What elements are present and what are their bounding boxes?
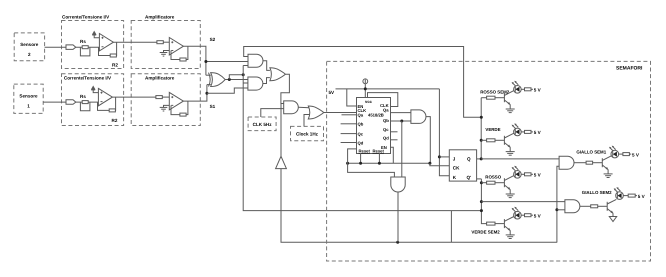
node J tie: [438, 155, 441, 158]
wire to JK CK pin: [430, 163, 449, 166]
current-source tag symbol (canale 1): [66, 100, 76, 105]
svg-text:GIALLO SEM2: GIALLO SEM2: [582, 190, 612, 195]
dashed box Clock 1Hz: [291, 126, 324, 140]
svg-text:Q: Q: [467, 156, 471, 161]
ground at U2 inverting input: [164, 51, 170, 53]
pin stub Qc right: [391, 131, 398, 133]
wire + 5V label row3: [531, 173, 533, 175]
wire buffer input down to bottom rail: [281, 169, 557, 243]
wire + 5V label row1: [531, 88, 533, 90]
supply resistor row1: [525, 88, 532, 91]
node on Q' vertical: [242, 73, 245, 76]
transistor Q row1: [503, 93, 505, 102]
LED D giallo1: [611, 150, 619, 158]
wire OR1 output down to AND3: [281, 74, 290, 103]
wire Q rail to GIALLO SEM1 AND: [481, 158, 559, 160]
dashed box Convertitore I/V (canale 1): [62, 74, 124, 126]
svg-text:5 V: 5 V: [632, 152, 640, 157]
svg-text:Rs: Rs: [80, 94, 86, 99]
base resistor row4: [487, 222, 495, 225]
wire EN-left tie to 5V: [347, 89, 357, 106]
pin stub Qd left: [341, 142, 357, 144]
wire S1: U4 output to logic: [183, 85, 207, 102]
wire to transistor base row1: [495, 97, 504, 99]
node JK clock junction: [428, 162, 431, 165]
node vcc junction: [364, 87, 367, 90]
op-amp U1 input marks: [102, 37, 104, 47]
svg-text:Reset: Reset: [359, 149, 371, 154]
sensor block Sensore 1: [14, 84, 43, 113]
wire XOR up-branch to Q' vertical: [229, 75, 243, 80]
wire + 5V label row2: [531, 131, 533, 133]
wire stub to GIALLO SEM2 AND input2: [557, 209, 565, 211]
wire Q' bus down to row4 resistor: [481, 179, 486, 224]
svg-text:Amplificatore: Amplificatore: [145, 76, 175, 81]
node XOR output junction: [228, 78, 231, 81]
and gate A1: [248, 54, 263, 67]
svg-text:J: J: [453, 156, 456, 161]
pin stub Qa left: [342, 114, 357, 116]
svg-text:Qb: Qb: [383, 118, 389, 123]
wire bus to base resistor row2: [481, 139, 486, 141]
wire U3 out to amplifier: [112, 96, 156, 98]
feedback loop with resistor (U4 canale 1): [171, 101, 188, 115]
LED D giallo2: [616, 192, 624, 200]
wire sensor1 to converter: [43, 101, 66, 103]
svg-text:R2: R2: [112, 118, 118, 123]
supply resistor giallo2: [628, 194, 635, 197]
transistor Q row4: [503, 219, 505, 228]
svg-text:2: 2: [28, 52, 31, 57]
wire bus to base resistor row3: [481, 182, 486, 184]
pin stub Reset1: [360, 154, 362, 164]
supply bubble above vcc: [363, 79, 368, 84]
supply resistor row2: [525, 130, 532, 133]
wire GIALLO shared vertical: [557, 166, 559, 242]
wire Q pin to bus: [477, 158, 482, 160]
wire EN2 pin via left: [348, 149, 395, 177]
ground giallo1: [604, 173, 613, 175]
svg-text:5 V: 5 V: [534, 130, 542, 135]
ground row2: [506, 151, 515, 153]
supply resistor giallo1: [623, 153, 630, 156]
wire bus to base resistor R row1: [481, 97, 486, 99]
pin stub Reset2: [378, 154, 380, 164]
svg-text:4518/2B: 4518/2B: [368, 113, 384, 118]
supply resistor row4: [525, 214, 532, 217]
wire XOR input stubs: [206, 74, 211, 76]
svg-text:5V: 5V: [329, 90, 336, 95]
wire AND7 output to resistor: [580, 205, 591, 207]
wire stub to J pin: [439, 156, 449, 158]
and gate A7 (GIALLO SEM2): [565, 200, 580, 213]
svg-text:S1: S1: [210, 104, 216, 109]
shunt loop Rs (canale 2): [80, 47, 90, 56]
wire buffer output up to AND3 input node: [280, 104, 282, 157]
svg-text:Amplificatore: Amplificatore: [145, 15, 175, 20]
buffer B1 (points up): [276, 156, 287, 168]
ground arrow giallo2: [609, 217, 616, 222]
flip-flop JK U5: [449, 150, 476, 181]
svg-text:CK: CK: [453, 166, 460, 171]
wire AND6 output to resistor: [574, 162, 586, 164]
wire AND3 output to OR2: [298, 106, 309, 109]
feedback loop with resistor R2 (canale 1): [98, 97, 116, 110]
op-amp U3 input marks: [101, 92, 103, 102]
node S1 junction: [205, 92, 208, 95]
wire stub Q' vertical to AND2 input2: [243, 82, 248, 84]
svg-text:Sensore: Sensore: [20, 42, 39, 47]
wire 5V rail: [336, 88, 440, 90]
feedback loop with resistor (U2 canale 2): [171, 46, 188, 59]
shunt loop Rs (canale 1): [80, 102, 90, 111]
svg-text:Sensore: Sensore: [19, 93, 38, 98]
pin stub Qb left: [341, 123, 357, 125]
wire S2 branch to AND1: [206, 61, 248, 63]
svg-text:R2: R2: [112, 63, 118, 68]
wire stub Q' vertical to AND1 input3: [243, 65, 248, 67]
and gate A4: [411, 110, 426, 124]
ground row4: [506, 234, 515, 236]
wire AND5 output to bottom rail: [397, 192, 399, 242]
svg-text:Qa: Qa: [358, 113, 364, 118]
svg-text:Q': Q': [467, 175, 472, 180]
svg-text:Qd: Qd: [358, 140, 364, 145]
ground row3: [506, 193, 515, 195]
supply resistor row3: [525, 173, 532, 176]
node Q' giallo2 tap: [480, 200, 483, 203]
wire 5V to J and K of JK: [439, 89, 449, 176]
wire U1 out to amplifier: [113, 41, 157, 43]
svg-text:Qa: Qa: [383, 107, 389, 112]
wire stub to AND3 input1: [281, 103, 284, 105]
wire to transistor giallo1: [593, 162, 603, 164]
wire + 5V label giallo2: [635, 195, 637, 197]
wire EN-right to reset rail: [391, 147, 394, 163]
and gate A2: [248, 77, 263, 90]
wire CLK5Hz output to AND3: [261, 109, 284, 117]
wire sensor2 to converter: [45, 46, 66, 48]
svg-text:Rs: Rs: [80, 39, 86, 44]
series resistor giallo2: [591, 205, 598, 208]
transistor Q row2: [503, 136, 505, 145]
wire to transistor base row2: [495, 139, 504, 141]
op-amp U1 (I/V converter, canale 2): [99, 34, 113, 51]
current-source tag symbol (canale 2): [66, 45, 76, 50]
wire right Qa to AND4 input1: [391, 112, 411, 114]
resistor Rs (canale 2): [82, 46, 88, 49]
node bottom rail and-down output: [396, 241, 399, 244]
svg-text:Qc: Qc: [358, 131, 364, 136]
wire resistor to op-amp U2: [163, 41, 169, 43]
wire right Qb to AND4 input2: [391, 120, 411, 122]
node S2 junction: [204, 60, 207, 63]
transistor Q giallo1: [601, 158, 603, 167]
wire tag to opamp: [76, 101, 99, 103]
wire right CLK loop to vcc: [368, 93, 398, 107]
transistor Q row3: [503, 178, 505, 187]
svg-text:5 V: 5 V: [534, 213, 542, 218]
and gate A6 (GIALLO SEM1): [559, 156, 574, 169]
svg-text:ROSSO: ROSSO: [485, 175, 501, 180]
wire LED to supply resistor row2: [521, 131, 524, 133]
node giallo vertical tap: [555, 208, 558, 211]
pin stub Qc left: [341, 133, 357, 135]
node reset rail left: [346, 162, 349, 165]
wire resistor to op-amp U4: [162, 96, 169, 98]
wire to transistor base row3: [495, 182, 504, 184]
wire LED to supply resistor row3: [521, 173, 524, 175]
svg-text:Qd: Qd: [383, 136, 389, 141]
svg-text:Corrente/Tensione I/V: Corrente/Tensione I/V: [62, 15, 110, 20]
+V arrow at op-amp U3: [93, 90, 98, 93]
op-amp U4 input marks: [171, 96, 173, 105]
svg-text:Reset: Reset: [373, 149, 385, 154]
dashed box SEMAFORI: [327, 61, 651, 261]
base resistor row3: [487, 181, 495, 184]
wire to transistor base row4: [495, 223, 504, 225]
wire Q' vertical (feedback from Q' rail): [243, 66, 481, 211]
base resistor row2: [487, 139, 495, 142]
dashed box CLK 5Hz: [248, 117, 276, 131]
wire OR2 output to counter CLK: [324, 112, 357, 114]
LED D row1: [514, 86, 522, 94]
svg-text:5 V: 5 V: [534, 88, 542, 93]
svg-text:Qb: Qb: [358, 122, 364, 127]
svg-text:Qc: Qc: [383, 127, 389, 132]
LED D row4: [514, 211, 522, 219]
transistor Q giallo2: [606, 202, 608, 211]
dashed box Convertitore I/V (canale 2): [62, 21, 124, 69]
node Qb branch: [400, 120, 403, 123]
feedback resistor (U2 canale 2): [180, 58, 186, 61]
svg-text:5 V: 5 V: [534, 173, 542, 178]
op-amp U2 (amplifier, canale 2): [169, 38, 183, 56]
and gate A3: [284, 101, 299, 114]
wire Q' line to GIALLO SEM2 AND input1: [481, 201, 565, 203]
node Q' rail tap: [480, 209, 483, 212]
ground row1: [506, 108, 515, 110]
wire + 5V label row4: [531, 214, 533, 216]
LED D row3: [514, 171, 522, 179]
node reset2: [378, 162, 381, 165]
svg-text:CLK 5Hz: CLK 5Hz: [253, 122, 273, 127]
or gate O2: [308, 106, 324, 119]
op-amp U2 input marks: [171, 41, 173, 50]
feedback resistor (U4 canale 1): [180, 113, 186, 116]
svg-text:Corrente/Tensione I/V: Corrente/Tensione I/V: [64, 76, 112, 81]
svg-text:VERDE: VERDE: [485, 127, 500, 132]
wire LED to supply resistor giallo1: [619, 153, 623, 155]
node reset1: [359, 162, 362, 165]
wire + 5V label giallo1: [629, 153, 631, 155]
wire top feedback rail from Q bus to AND1 input1: [244, 47, 482, 118]
wire Q bus: [480, 98, 482, 159]
pin stub Qd right: [391, 139, 398, 141]
wire rail1-to-rail2 connector: [450, 211, 452, 243]
and gate A5 (points down): [391, 177, 405, 192]
svg-text:Clock 1Hz: Clock 1Hz: [296, 132, 319, 137]
series resistor (canale 1): [156, 96, 162, 99]
series resistor (canale 2): [157, 41, 163, 44]
xor gate X1: [209, 73, 211, 87]
resistor Rs (canale 1): [82, 101, 88, 104]
svg-text:1: 1: [27, 104, 30, 109]
svg-text:ROSSO SEM2: ROSSO SEM2: [480, 90, 510, 95]
wire XOR output: [225, 79, 248, 81]
wire reset rail: [348, 162, 430, 164]
node Q bus feedback tap: [480, 116, 483, 119]
dashed box Amplificatore (canale 1): [131, 74, 200, 126]
wire Qb branch down to AND5: [401, 121, 403, 177]
wire tag to opamp: [76, 46, 100, 48]
base resistor row1: [487, 96, 495, 99]
ground at U4 inverting input: [164, 105, 170, 107]
wire Clock1Hz output to OR2: [304, 115, 310, 127]
wire AND2 output to OR1: [263, 78, 270, 84]
wire LED to supply resistor row1: [521, 88, 524, 90]
op-amp U4 (amplifier, canale 1): [169, 92, 183, 110]
svg-text:5 V: 5 V: [638, 194, 646, 199]
counter chip 4518: [357, 98, 391, 154]
wire to transistor giallo2: [598, 205, 608, 207]
resistor R2 (canale 2): [110, 54, 116, 57]
wire AND4 output down to JK clock node: [426, 117, 430, 164]
node Q bus verde tap: [480, 139, 483, 142]
svg-text:VERDE SEM2: VERDE SEM2: [471, 230, 500, 235]
svg-text:GIALLO SEM1: GIALLO SEM1: [576, 150, 606, 155]
dashed box Amplificatore (canale 2): [131, 21, 200, 69]
+V arrow at op-amp U1: [94, 35, 99, 38]
sensor block Sensore 2: [14, 33, 44, 61]
op-amp U3 (I/V converter, canale 1): [98, 88, 112, 105]
or gate O1: [270, 68, 286, 81]
wire AND1 output to OR1: [263, 61, 270, 71]
svg-text:S2: S2: [210, 37, 216, 42]
wire LED to supply resistor giallo2: [623, 195, 628, 197]
node Q' rosso tap: [480, 181, 483, 184]
svg-text:vcc: vcc: [365, 99, 373, 104]
wire S2: U2 output to logic: [183, 46, 206, 75]
wire LED to supply resistor row4: [521, 214, 524, 216]
LED D row2: [514, 128, 522, 136]
svg-text:SEMAFORI: SEMAFORI: [616, 66, 643, 72]
wire Q' pin to bus: [477, 178, 482, 180]
series resistor giallo1: [586, 161, 593, 164]
resistor R2 (canale 1): [109, 109, 115, 112]
node Q pin junction: [480, 157, 483, 160]
feedback loop with resistor R2 (canale 2): [99, 42, 117, 55]
wire S1 branch to AND2: [207, 88, 248, 93]
